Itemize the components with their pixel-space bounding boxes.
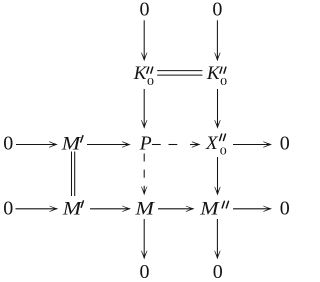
svg-text:0: 0 xyxy=(220,145,227,157)
svg-text:0: 0 xyxy=(140,261,150,282)
svg-text:M: M xyxy=(61,134,82,155)
svg-text:0: 0 xyxy=(3,133,13,155)
svg-text:0: 0 xyxy=(220,76,227,88)
svg-text:K: K xyxy=(206,63,221,84)
svg-text:X: X xyxy=(205,133,219,154)
svg-text:0: 0 xyxy=(140,0,150,21)
svg-text:P: P xyxy=(139,134,152,155)
svg-text:0: 0 xyxy=(280,133,290,155)
svg-text:0: 0 xyxy=(147,76,154,88)
svg-text:M: M xyxy=(62,198,83,219)
svg-text:M: M xyxy=(199,198,220,219)
svg-text:0: 0 xyxy=(280,197,290,219)
svg-text:0: 0 xyxy=(213,261,223,282)
svg-text:0: 0 xyxy=(212,0,222,21)
svg-text:K: K xyxy=(133,63,148,84)
svg-text:M: M xyxy=(134,198,155,219)
svg-text:0: 0 xyxy=(3,197,13,219)
